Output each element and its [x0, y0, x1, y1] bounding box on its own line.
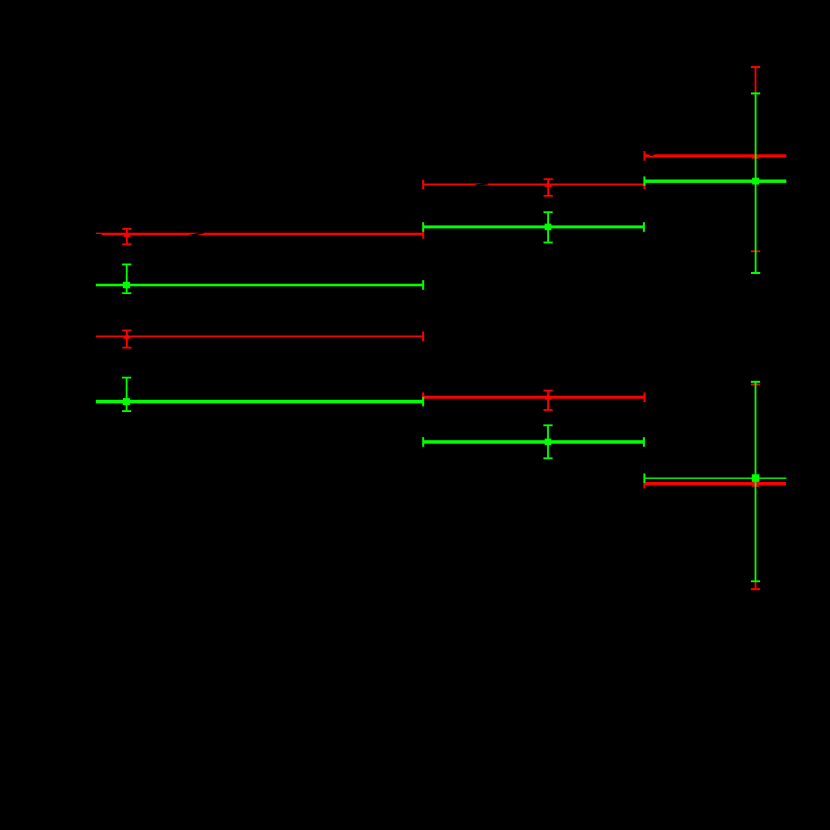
- green point J error bars and marker: [643, 92, 786, 274]
- green point D error bars and marker: [96, 377, 424, 412]
- black fit-curve notch over red bar A: [189, 232, 205, 236]
- green point F error bars and marker: [422, 211, 645, 243]
- green point K error bars and marker: [643, 381, 786, 582]
- red point A error bars and marker: [96, 228, 424, 245]
- green point H error bars and marker: [422, 424, 645, 459]
- black fit-curve notch over red bar I: [649, 153, 655, 155]
- green point B error bars and marker: [96, 264, 424, 295]
- red point E error bars and marker: [422, 178, 645, 196]
- red point I error bars and marker: [644, 66, 787, 252]
- black fit-curve notch over red bar E: [476, 184, 489, 186]
- red point C error bars and marker: [96, 330, 424, 349]
- red point L error bars and marker: [643, 384, 786, 591]
- red point G error bars and marker: [422, 390, 645, 411]
